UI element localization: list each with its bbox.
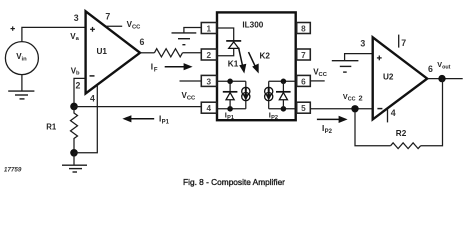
wire U1 output to series resistor (140, 52, 154, 54)
pin box 5 (297, 102, 311, 113)
U2 minus input symbol (377, 108, 382, 110)
svg-text:2: 2 (76, 81, 81, 91)
arrow K2 light path (249, 52, 259, 73)
U2 plus input symbol (377, 56, 382, 61)
plus polarity mark at Vin top (11, 26, 15, 30)
svg-text:U2: U2 (383, 72, 394, 81)
feedback loop wire (R2 to output node) (421, 79, 443, 146)
op-amp U2 (373, 37, 428, 119)
node dot right cell top (281, 79, 287, 85)
wire Vin top to U1 pin3 (22, 27, 86, 41)
photodiode PD1 (229, 81, 231, 91)
ground at IL300 pin1 (172, 33, 197, 45)
wire U2 output (427, 78, 463, 80)
U1 plus input symbol (90, 27, 95, 32)
arrow IP1 current direction (122, 115, 154, 122)
node Vb junction dot (70, 103, 78, 111)
U1 pin7 Vcc stub (106, 25, 122, 27)
photodiode PD2 (282, 81, 284, 91)
pin box 2 (201, 49, 216, 60)
svg-text:3: 3 (74, 13, 79, 23)
svg-text:R2: R2 (396, 129, 407, 138)
svg-text:5: 5 (301, 104, 306, 113)
right photodiode cell bottom wire (pin5) (269, 108, 296, 110)
svg-text:7: 7 (301, 51, 306, 60)
arrow IP2 current direction (317, 116, 348, 123)
svg-text:4: 4 (391, 108, 396, 118)
pin box 1 (201, 23, 216, 34)
svg-text:R1: R1 (46, 122, 57, 131)
ground under Vin (8, 91, 34, 99)
left photodiode cell bottom wire (pin4) (217, 108, 246, 110)
series resistor (U1 out to IL300 pin2) (154, 49, 182, 57)
svg-text:1: 1 (207, 24, 212, 33)
right photodiode cell top wire (pin6) (269, 80, 296, 82)
current source K1 (double circle with arrow) (245, 81, 247, 87)
pin box 8 (297, 23, 311, 34)
IL300 pin3 Vcc stub (180, 80, 202, 82)
pin box 4 (201, 102, 216, 113)
svg-text:4: 4 (90, 93, 95, 103)
ground under R1 (73, 153, 75, 165)
svg-text:7: 7 (105, 11, 110, 21)
LED wiring pin1 to pin2 (217, 28, 234, 40)
wire Vin bottom to ground (21, 75, 23, 92)
svg-text:4: 4 (207, 104, 212, 113)
wire U1 pin4 down to R1 bottom (74, 85, 97, 153)
svg-text:U1: U1 (97, 47, 108, 56)
node R1 bottom junction dot (70, 149, 78, 157)
left photodiode cell top wire (pin3) (217, 80, 246, 82)
svg-text:8: 8 (301, 24, 306, 33)
node dot left cell top (227, 79, 233, 85)
svg-text:2: 2 (207, 51, 212, 60)
wire Vb node to IL300 pin4 (74, 106, 201, 108)
pin box 3 (201, 75, 216, 86)
svg-text:K1: K1 (228, 60, 239, 69)
pin box 6 (297, 75, 311, 86)
arrow K1 light path (239, 48, 247, 74)
resistor R2 (391, 143, 421, 149)
svg-text:Fig. 8 - Composite Amplifier: Fig. 8 - Composite Amplifier (183, 177, 285, 187)
resistor R1 (71, 106, 78, 152)
svg-text:6: 6 (428, 64, 433, 74)
svg-text:2: 2 (359, 94, 363, 103)
node dot U2 inverting input (351, 105, 358, 112)
pin box 7 (297, 49, 311, 60)
wire resistor to IL300 pin2 (183, 52, 202, 54)
arrow IF current direction (165, 63, 193, 70)
feedback loop wire (node to R2) (355, 113, 391, 146)
IL300 pin6 Vcc stub (310, 80, 324, 82)
wire U2 noninverting input to ground (345, 54, 373, 61)
wire U1 pin2 to Vb node (74, 78, 86, 106)
svg-text:3: 3 (360, 38, 365, 48)
op-amp U1 (86, 11, 140, 93)
LED cathode bar (226, 40, 241, 42)
U2 pin7 tick (398, 35, 400, 48)
LED triangle (229, 42, 239, 49)
U1 minus input symbol (90, 75, 95, 77)
current source K2 (double circle with arrow) (268, 81, 270, 87)
IL300 IC body (217, 12, 296, 120)
svg-text:6: 6 (139, 37, 144, 47)
wire IL300 pin1 to ground (184, 28, 201, 33)
node dot U2 output (438, 75, 445, 82)
wire IL300 pin5 to U2 inverting input (310, 108, 372, 110)
svg-text:6: 6 (301, 77, 306, 86)
node dot left cell bottom (227, 106, 233, 112)
U2 pin4 tick (387, 109, 389, 123)
svg-text:K2: K2 (260, 52, 271, 61)
svg-text:7: 7 (401, 38, 406, 48)
svg-text:17759: 17759 (4, 166, 22, 173)
svg-text:IL300: IL300 (242, 21, 263, 30)
voltage source Vin circle (5, 42, 38, 75)
node dot right cell bottom (281, 106, 287, 112)
svg-text:3: 3 (207, 77, 212, 86)
ground at U2 pin3 (332, 61, 359, 72)
